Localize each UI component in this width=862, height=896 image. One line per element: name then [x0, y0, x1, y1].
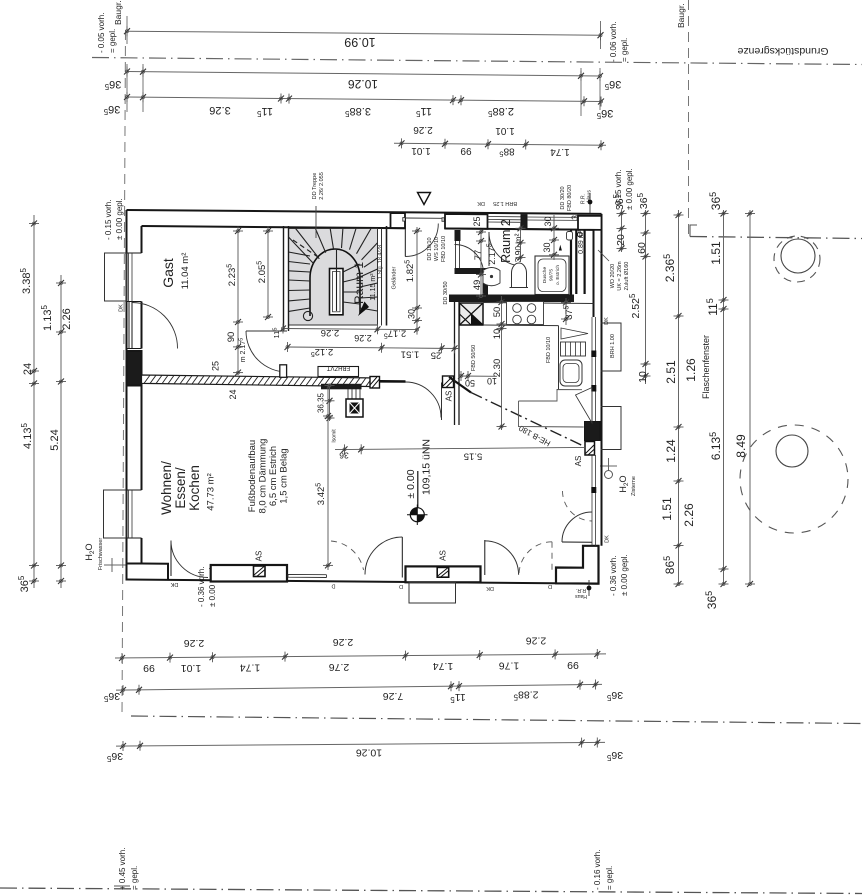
svg-text:1.01: 1.01	[181, 662, 202, 674]
level mark stem line	[417, 471, 419, 508]
svg-text:DD 30/50: DD 30/50	[443, 281, 449, 304]
svg-text:1.51: 1.51	[401, 349, 420, 360]
water connection symbol	[104, 564, 126, 566]
svg-text:Baugr.: Baugr.	[676, 3, 686, 28]
svg-text:47.73 m²: 47.73 m²	[206, 473, 217, 511]
svg-text:1.74: 1.74	[240, 662, 261, 674]
svg-text:25: 25	[431, 350, 442, 361]
svg-text:2.30: 2.30	[492, 359, 503, 378]
wall: bottom block 2 (white, thick border)	[211, 565, 287, 582]
dim chain V1 1.82.5 / 30	[416, 227, 418, 325]
svg-text:25: 25	[472, 216, 482, 226]
wall: top exterior outer line	[127, 210, 602, 214]
svg-text:3.26: 3.26	[209, 104, 230, 116]
svg-text:50: 50	[465, 378, 475, 388]
svg-text:10: 10	[487, 376, 497, 386]
svg-text:DK: DK	[486, 585, 494, 591]
french door bottom right: solid leaf	[484, 540, 486, 575]
svg-text:m 2.175: m 2.175	[239, 338, 248, 362]
zuluft arrow	[559, 245, 562, 251]
AS shaft box at hall	[443, 376, 454, 388]
Raum2 door leaf	[488, 232, 490, 266]
svg-text:- 0.36 vorh.: - 0.36 vorh.	[197, 567, 206, 607]
svg-text:1.Stg. 18 4/28: 1.Stg. 18 4/28	[378, 245, 384, 279]
dimension chain T2 line 10.26	[127, 72, 600, 77]
window sill box right lower	[601, 407, 622, 450]
entrance door swing arc	[405, 224, 438, 257]
svg-text:FBD 80/20: FBD 80/20	[567, 185, 573, 211]
label RR Haus top with marker	[589, 193, 591, 213]
svg-text:- 0.06 vorh.: - 0.06 vorh.	[609, 22, 618, 62]
svg-text:Gast: Gast	[160, 258, 176, 288]
manifold black base	[321, 384, 362, 390]
svg-text:2.51: 2.51	[664, 360, 678, 384]
svg-text:2.26/ 2.055: 2.26/ 2.055	[319, 172, 325, 200]
svg-text:Zuluft Ø160: Zuluft Ø160	[624, 262, 630, 291]
svg-text:2.26: 2.26	[413, 124, 433, 135]
toilet	[512, 263, 527, 288]
svg-text:2.26: 2.26	[321, 327, 340, 338]
svg-text:10.26: 10.26	[356, 747, 382, 759]
label -0.36 vorh +-0.00 gepl bottom-right of building	[609, 554, 629, 596]
stair treads right	[343, 243, 378, 311]
wall: left exterior inner line with openings	[141, 226, 143, 564]
section line HE-B 180	[449, 377, 471, 393]
svg-text:20: 20	[615, 234, 627, 246]
wall: top entrance left block	[391, 213, 406, 228]
svg-text:99: 99	[460, 145, 472, 156]
svg-text:36: 36	[339, 451, 349, 461]
annotation DD Treppe leader	[315, 206, 317, 238]
wall: top block right of entrance	[445, 214, 488, 229]
svg-text:AS: AS	[574, 456, 583, 467]
dimension chain L1 (outer left)	[33, 215, 35, 588]
window right wall 1 glazing	[592, 317, 596, 422]
svg-text:BRH 1.25: BRH 1.25	[493, 200, 517, 206]
svg-text:DD Treppe: DD Treppe	[312, 173, 318, 200]
building limit line Baugrenze right (vertical dashed)	[688, 0, 690, 237]
washbasin	[483, 268, 500, 286]
tree crown dashed circle (bottom right)	[740, 425, 848, 533]
dim chain gast vertical 2.05.5	[267, 227, 269, 318]
label -0.15 vorh +-0.00 gepl at building top-left	[104, 198, 124, 240]
svg-text:Haus: Haus	[575, 593, 587, 599]
label -0.06 vorh = gepl (right end of 10.99 line)	[609, 22, 629, 62]
svg-text:2.76: 2.76	[329, 661, 350, 673]
dimension chain T3	[127, 97, 601, 102]
svg-text:Fußbodenaufbau: Fußbodenaufbau	[247, 440, 258, 512]
svg-text:90/75: 90/75	[549, 269, 555, 281]
svg-text:49: 49	[472, 280, 483, 291]
svg-text:36.35: 36.35	[317, 392, 326, 413]
svg-text:FBD 50/50: FBD 50/50	[471, 345, 477, 371]
terrace step outside	[409, 583, 456, 604]
svg-text:25: 25	[211, 361, 221, 371]
dimension chain R5	[749, 210, 751, 584]
dimension chain B2	[116, 684, 602, 690]
svg-text:Raum 1: Raum 1	[352, 262, 366, 304]
svg-text:Wohnen/: Wohnen/	[159, 461, 174, 515]
svg-text:99: 99	[567, 659, 579, 671]
window sill box outside left lower	[104, 490, 127, 538]
svg-text:± 0.00 gepl.: ± 0.00 gepl.	[625, 168, 634, 210]
label H2O Zisterne	[618, 475, 637, 496]
svg-text:11.15 m²: 11.15 m²	[370, 273, 377, 301]
svg-text:Dusche: Dusche	[542, 267, 548, 284]
chimney box with X	[346, 399, 363, 417]
dimension chain R2	[645, 210, 647, 384]
window top wall 2	[527, 217, 578, 220]
north triangle	[418, 193, 431, 205]
svg-text:Geländer: Geländer	[392, 267, 398, 290]
small fixture at shaft top	[567, 232, 573, 241]
svg-text:BRH 1.00: BRH 1.00	[610, 334, 616, 358]
svg-text:Grundstücksgrenze: Grundstücksgrenze	[737, 45, 828, 57]
wall: top segment 521-601 inner line	[527, 228, 594, 231]
svg-text:10.26: 10.26	[348, 77, 378, 91]
WC door arc	[455, 245, 484, 274]
svg-text:= gepl.: = gepl.	[130, 866, 139, 890]
corner hook of right property line	[690, 225, 697, 237]
kitchen counter top band	[483, 303, 594, 326]
label -0.15 vorh +-0.00 gepl right of T4 chain	[614, 168, 634, 210]
stair core slot inner line	[333, 272, 341, 312]
window right wall 2 glazing	[592, 455, 596, 546]
dimension chain R4	[723, 210, 725, 584]
dim chain 3.42.5 living room	[327, 386, 329, 570]
window top wall (DK BRH 1.25)	[488, 217, 522, 223]
svg-text:Zisterne: Zisterne	[631, 476, 637, 496]
svg-text:DD 30/20: DD 30/20	[560, 186, 566, 209]
hatch square at band end	[370, 377, 380, 389]
svg-text:- 0.16 vorh.: - 0.16 vorh.	[593, 850, 602, 890]
svg-text:Kochen: Kochen	[187, 465, 202, 511]
wall hall/kitchen vertical double	[455, 302, 460, 425]
door right wall: solid arc	[562, 512, 592, 542]
svg-text:Raum 2: Raum 2	[499, 219, 513, 263]
counter along right wall	[558, 326, 560, 390]
svg-text:AS: AS	[255, 551, 264, 562]
door bottom wall left: leaf	[170, 541, 172, 577]
svg-text:= gepl.: = gepl.	[108, 29, 117, 53]
svg-text:FBD 10/10: FBD 10/10	[546, 337, 552, 363]
WC wall vertical black	[483, 274, 489, 296]
svg-text:WS 10/10: WS 10/10	[434, 237, 440, 261]
wall: bottom exterior outer line	[126, 580, 599, 584]
wall: bottom-left pillar	[126, 564, 169, 581]
label -0.05 vorh = gepl top-left	[97, 13, 117, 53]
svg-text:UK = 2.26m: UK = 2.26m	[617, 261, 623, 291]
wall right of stairwell	[381, 229, 383, 326]
wall between Gast and stairwell	[284, 226, 289, 331]
label 36.35 with ticks	[329, 384, 331, 422]
svg-text:2.26: 2.26	[682, 503, 696, 527]
cooktop outline	[507, 302, 544, 325]
svg-text:Baugr.: Baugr.	[113, 0, 123, 25]
door bottom wall left: swing arc	[171, 541, 208, 578]
property line right horizontal	[690, 237, 862, 239]
stair start circle	[303, 311, 312, 320]
door hall-Wohnen swing arc	[406, 382, 442, 418]
tree circle small solid (top right)	[781, 239, 815, 273]
svg-text:5.24: 5.24	[49, 429, 61, 450]
WC wall horizontal black	[455, 268, 489, 274]
entrance threshold	[405, 217, 442, 219]
shower box	[535, 256, 569, 295]
svg-text:30: 30	[407, 309, 417, 319]
dim chain kitchen vertical 50/10/2.30	[501, 296, 503, 430]
svg-text:50: 50	[492, 307, 503, 318]
svg-text:11.04 m²: 11.04 m²	[180, 253, 191, 290]
window sill box outside left upper	[105, 253, 127, 301]
floor heating manifold box FBHZVT	[318, 367, 359, 377]
svg-text:0.89 m²: 0.89 m²	[578, 229, 585, 253]
svg-text:Essen/: Essen/	[173, 467, 188, 509]
wall stairwell to hall thick	[386, 226, 388, 326]
french door bottom right: dashed leaf	[551, 542, 553, 575]
dimension chain B1	[115, 654, 606, 658]
svg-text:R.R.: R.R.	[576, 587, 586, 593]
svg-text:77: 77	[473, 250, 484, 261]
wall thin double to WC	[456, 241, 460, 268]
thick lintel line	[380, 380, 406, 383]
svg-text:2.26: 2.26	[526, 635, 547, 647]
svg-text:10: 10	[637, 371, 649, 383]
dimension chain B3	[116, 742, 605, 746]
door hall-Wohnen leaf	[441, 383, 443, 421]
wall: right black chunk	[585, 422, 601, 441]
french door bottom: right leaf	[401, 537, 403, 578]
dish rack hatch	[561, 342, 586, 356]
french door bottom: left dashed arc	[331, 541, 364, 570]
french door bottom right: solid arc	[485, 541, 519, 575]
AS shaft on bottom wall left	[254, 566, 266, 577]
window glazing left wall lower	[129, 490, 133, 538]
kitchen counter L outline	[519, 390, 584, 428]
shaft walls right of shower	[571, 230, 585, 295]
svg-text:Isomit: Isomit	[332, 429, 338, 443]
dimension chain L2 (inner left)	[60, 275, 62, 588]
dim chain C0 2.26 / 2.17.5	[283, 329, 417, 330]
svg-text:DK: DK	[604, 317, 610, 325]
svg-text:DK: DK	[477, 200, 485, 206]
wall stub black at entrance right	[455, 230, 461, 241]
french door bottom: right arc	[365, 537, 402, 575]
svg-text:1,5 cm Belag: 1,5 cm Belag	[279, 448, 290, 503]
tree crown dashed circle (top right)	[774, 236, 820, 282]
cistern connection symbol	[600, 465, 617, 467]
svg-text:FBD 10/10: FBD 10/10	[441, 236, 447, 262]
svg-text:D: D	[548, 583, 552, 589]
svg-text:10.99: 10.99	[344, 35, 375, 49]
svg-text:D: D	[331, 583, 335, 589]
tick at bottom-left label	[114, 885, 130, 887]
svg-text:24: 24	[22, 363, 34, 375]
dim 90 door gast	[237, 322, 239, 375]
svg-text:- 0.15 vorh.: - 0.15 vorh.	[104, 200, 113, 240]
svg-text:30: 30	[542, 242, 552, 252]
sink rounded	[560, 360, 582, 386]
dim chain right room 30/3/30	[520, 222, 522, 262]
svg-text:5.15: 5.15	[464, 451, 483, 462]
svg-text:DK: DK	[119, 304, 125, 312]
label WD 20/20 UK=2.26m Zuluft	[598, 250, 609, 261]
svg-text:1.74: 1.74	[433, 660, 454, 672]
svg-text:= gepl.: = gepl.	[605, 866, 614, 890]
svg-text:DK: DK	[170, 581, 178, 587]
svg-text:± 0.00: ± 0.00	[405, 469, 417, 498]
dimension chain R1	[621, 210, 623, 252]
dimension chain T1 line 10.99	[127, 31, 601, 35]
svg-text:1.74: 1.74	[550, 146, 570, 157]
svg-text:8,0 cm Dämmung: 8,0 cm Dämmung	[258, 439, 269, 514]
svg-text:= gepl.: = gepl.	[620, 38, 629, 62]
dimension chain R3	[678, 210, 680, 584]
stair direction line with arrow	[336, 250, 338, 311]
svg-text:2.26: 2.26	[61, 308, 73, 329]
svg-text:- 0.36 vorh.: - 0.36 vorh.	[609, 556, 618, 596]
vent pipe circle	[578, 232, 583, 237]
wall: left outer face window edges	[127, 253, 142, 538]
AS shaft right wall corner	[585, 442, 595, 456]
svg-text:3: 3	[570, 215, 580, 220]
svg-text:1.51: 1.51	[709, 241, 723, 265]
hatched interior wall band Gast/Wohnen	[142, 375, 378, 387]
door left wall: swing arc	[132, 303, 178, 349]
door right wall: dashed arc	[563, 491, 593, 521]
kitchen separator wall black	[449, 295, 574, 303]
flue box hatched	[460, 303, 484, 325]
svg-text:Haus: Haus	[587, 190, 593, 202]
property line bottom	[0, 888, 862, 894]
svg-text:± 0.00 gepl.: ± 0.00 gepl.	[115, 198, 124, 240]
door Gast-hall leaf	[246, 330, 287, 332]
svg-text:Frischwasser: Frischwasser	[98, 538, 104, 571]
svg-text:DD 10/10: DD 10/10	[427, 237, 433, 260]
svg-text:2.26: 2.26	[333, 636, 354, 648]
svg-text:+ 0.45 vorh.: + 0.45 vorh.	[118, 848, 127, 890]
wall: top pillar black at x=521	[521, 215, 527, 230]
dim chain C1 2.12.5 / 1.51 / 25	[288, 347, 460, 349]
window glazing left wall upper	[129, 253, 133, 302]
level mark symbol	[410, 508, 424, 522]
dim line 5.15 across living room	[335, 447, 586, 449]
dim 10/50 labels at kitchen wall	[459, 375, 497, 377]
svg-text:D: D	[399, 583, 403, 589]
svg-text:1.24: 1.24	[664, 439, 678, 463]
svg-text:1.51: 1.51	[660, 497, 674, 521]
svg-text:AS: AS	[439, 550, 448, 561]
cabinet door triangle top	[561, 328, 588, 339]
svg-text:90: 90	[226, 332, 237, 343]
svg-text:- 0.05 vorh.: - 0.05 vorh.	[97, 13, 106, 53]
door right wall: solid leaf	[562, 541, 592, 543]
wall: top exterior inner line (gap at entrance door)	[142, 226, 594, 230]
wall: right exterior inner line segments	[593, 230, 595, 317]
cabinet door triangle at right window	[576, 388, 593, 424]
svg-text:2.26: 2.26	[184, 637, 205, 649]
french door bottom right: dashed arc	[519, 542, 552, 575]
stair core slot	[330, 269, 344, 315]
svg-text:1.76: 1.76	[499, 660, 520, 672]
label RR Haus bottom marker	[588, 580, 590, 596]
window sill box right BRH 1.00	[601, 323, 622, 371]
label +0.45 vorh = gepl bottom-left	[118, 848, 139, 890]
wall: bottom-right corner L pillar	[556, 546, 599, 584]
svg-text:99: 99	[143, 662, 155, 674]
cooktop burners	[513, 304, 522, 313]
label H2O Frischwasser	[84, 538, 104, 571]
entrance door leaf	[404, 218, 406, 257]
svg-text:7.26: 7.26	[383, 690, 404, 702]
svg-text:o. Estrich: o. Estrich	[555, 265, 561, 285]
svg-text:109,15 üNN: 109,15 üNN	[421, 439, 433, 495]
chimney pipes below band	[348, 389, 360, 399]
dim chain entrance vertical 25/77/49	[480, 230, 482, 296]
property line lower horizontal	[131, 716, 862, 724]
svg-text:WD 20/20: WD 20/20	[610, 264, 616, 288]
svg-text:1.26: 1.26	[684, 358, 698, 382]
svg-text:FBHZVT: FBHZVT	[327, 365, 351, 371]
Raum2 door arc	[489, 232, 523, 266]
building limit line Baugrenze left (vertical dashed)	[122, 30, 126, 716]
svg-text:10: 10	[492, 329, 503, 340]
property line Grundstuecksgrenze top	[92, 58, 862, 65]
svg-text:AS: AS	[445, 391, 454, 402]
label -0.16 vorh = gepl bottom-right	[593, 850, 614, 890]
wall: left wall black chunk below door	[127, 351, 142, 386]
svg-text:1.01: 1.01	[495, 125, 515, 136]
wall: left exterior outer line	[126, 210, 128, 580]
stair treads top fan	[289, 229, 372, 264]
stair arrow head	[358, 302, 369, 317]
label -0.36 vorh +-0.00 gepl bottom-left of building	[197, 565, 217, 607]
stair well arch	[310, 249, 360, 316]
door left wall: leaf	[129, 302, 132, 349]
svg-text:± 0.00 gepl.: ± 0.00 gepl.	[620, 554, 629, 596]
window bottom wall 1	[288, 574, 327, 577]
svg-text:1.01: 1.01	[411, 145, 431, 156]
dim 37.5 right kitchen	[565, 298, 567, 325]
staircase area fill	[289, 229, 378, 326]
svg-text:2.26: 2.26	[354, 333, 372, 343]
dimension chain T4	[394, 143, 606, 145]
stair treads left	[289, 252, 311, 311]
svg-text:24: 24	[228, 389, 238, 399]
AS shaft on bottom wall right	[437, 567, 449, 577]
wall: right exterior outer line	[601, 214, 603, 546]
svg-text:30: 30	[543, 216, 553, 226]
svg-text:DK: DK	[605, 535, 611, 543]
wall: top-right corner block	[578, 216, 602, 230]
door Gast-hall swing arc	[246, 331, 287, 372]
svg-text:Flaschenfenster: Flaschenfenster	[701, 335, 711, 399]
wall: bottom block 4 (white, thick border)	[406, 566, 481, 582]
svg-text:6,5 cm Estrich: 6,5 cm Estrich	[268, 446, 279, 506]
wall stub below gast/stair wall	[280, 365, 287, 378]
stair break line dashed	[293, 240, 318, 257]
dim chain gast vertical 2.23.5	[237, 227, 239, 323]
svg-text:60: 60	[636, 242, 648, 254]
tree circle small solid (bottom right)	[776, 435, 808, 467]
